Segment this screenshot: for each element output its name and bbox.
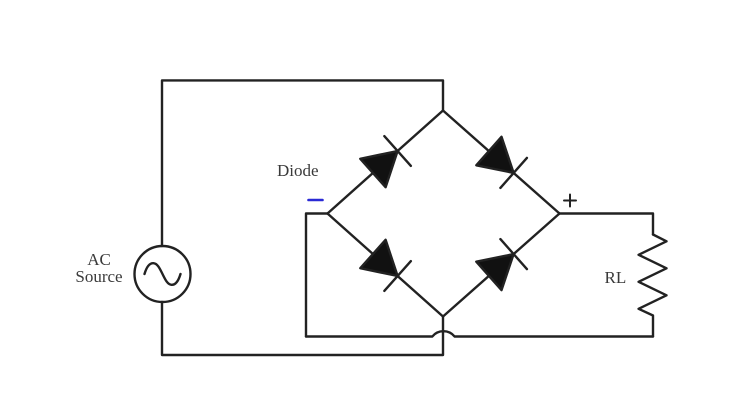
wire bridge edge top node to right node [443,111,560,214]
svg-text:Diode: Diode [277,161,319,180]
svg-text:RL: RL [605,268,627,287]
diode D3 triangle [360,240,397,276]
node plus (positive DC output) [564,195,576,207]
wire from negative output node left and down [306,214,328,337]
diode D1 cathode bar [384,136,411,166]
svg-text:Source: Source [75,267,122,286]
wire load return with crossover hop over AC wire [306,331,653,336]
diode D4 cathode bar [500,239,527,269]
wire from AC source top up, across, and down to bridge top node [162,80,443,246]
AC source [135,246,191,302]
wire bridge edge left node to bottom node [328,214,444,317]
wire bridge edge bottom node to right node [443,214,560,317]
diode D4 triangle [476,254,513,290]
AC source circle [135,246,191,302]
diode D2 (top-right bridge arm) [443,111,560,214]
diode D3 (bottom-left bridge arm) [328,214,444,317]
diode D1 triangle [360,151,397,187]
node minus (negative DC output) [309,199,323,202]
wire from AC source bottom down, across, and up to bridge bottom node [162,302,443,355]
diode D3 cathode bar [384,261,411,291]
diode D1 (top-left bridge arm) [328,111,444,214]
diode D4 (bottom-right bridge arm) [443,214,560,317]
diode D2 triangle [476,137,513,173]
AC source sine wave [145,263,181,285]
wire from positive output node right to load [560,214,654,235]
diode D2 cathode bar [500,158,527,188]
wire bridge edge left node to top node [328,111,444,214]
resistor RL [639,235,667,337]
